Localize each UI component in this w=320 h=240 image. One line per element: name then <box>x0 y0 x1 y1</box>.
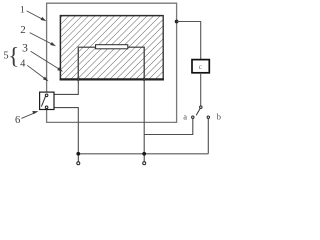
label 6 <box>15 111 39 126</box>
contact a <box>192 116 194 118</box>
svg-text:4: 4 <box>20 59 26 70</box>
svg-text:{: { <box>8 43 19 68</box>
label 3 <box>22 43 63 72</box>
component box c <box>192 60 209 73</box>
lead blob right <box>143 76 146 82</box>
wire: contact b down <box>207 118 209 153</box>
wire: inner-right lead down to bottom terminal <box>143 47 145 154</box>
junction dot right terminal <box>142 152 146 156</box>
switch blade <box>196 108 200 115</box>
svg-text:3: 3 <box>22 43 28 55</box>
bottom supply line <box>78 153 208 155</box>
label 2 <box>20 24 56 46</box>
svg-text:b: b <box>217 111 221 121</box>
inner heating chamber rect <box>78 47 144 81</box>
contact b <box>207 116 209 118</box>
enclosure shell 1 (outer boundary) <box>47 3 177 122</box>
label 4 <box>20 59 48 82</box>
svg-text:a: a <box>183 111 187 121</box>
insulation block 2 (hatched) <box>60 15 164 80</box>
heating element slot 3 <box>96 45 128 49</box>
wire: contact a to inner-right lead <box>144 118 193 134</box>
wire: c down to switch pivot <box>200 73 202 106</box>
svg-text:2: 2 <box>20 24 26 36</box>
label 1 <box>20 6 46 22</box>
junction dot top-right <box>175 20 179 24</box>
label 5 with brace <box>3 43 19 68</box>
wire: thermostat out to bottom terminal <box>48 108 78 154</box>
svg-text:1: 1 <box>20 6 25 16</box>
terminal pin right <box>143 156 146 165</box>
svg-text:6: 6 <box>15 115 20 126</box>
junction dot left terminal <box>76 152 80 156</box>
terminal pin left <box>77 156 80 165</box>
wire: inner-left lead down to thermostat <box>54 47 78 94</box>
lead blob left <box>77 76 80 82</box>
switch pivot contact <box>200 106 202 108</box>
wire: junction to component c <box>177 22 201 60</box>
thermostat box 6 <box>40 92 54 109</box>
